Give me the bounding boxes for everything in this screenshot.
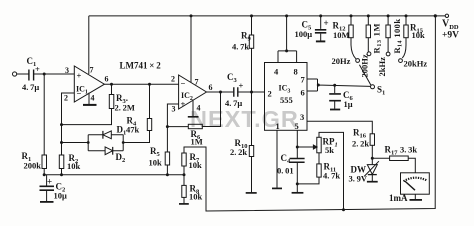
svg-text:10k: 10k bbox=[67, 161, 81, 171]
svg-text:2. 2k: 2. 2k bbox=[352, 139, 369, 149]
svg-text:2. 2k: 2. 2k bbox=[230, 147, 247, 157]
svg-text:6: 6 bbox=[301, 88, 305, 98]
svg-text:200Hz: 200Hz bbox=[360, 54, 370, 77]
svg-text:1: 1 bbox=[276, 121, 280, 131]
svg-text:2kHz: 2kHz bbox=[377, 57, 387, 77]
svg-text:+: + bbox=[324, 18, 329, 28]
svg-text:1M: 1M bbox=[191, 137, 203, 147]
svg-text:IC3: IC3 bbox=[279, 84, 291, 95]
svg-text:7: 7 bbox=[90, 66, 94, 75]
svg-text:10μ: 10μ bbox=[54, 191, 68, 201]
svg-text:D2: D2 bbox=[116, 152, 126, 164]
svg-text:47k: 47k bbox=[126, 125, 140, 135]
svg-text:+9V: +9V bbox=[442, 31, 459, 41]
svg-text:R14 100k: R14 100k bbox=[392, 19, 404, 54]
svg-text:5: 5 bbox=[295, 121, 299, 131]
svg-text:4. 7k: 4. 7k bbox=[232, 42, 249, 52]
svg-text:10k: 10k bbox=[412, 30, 426, 40]
svg-text:10k: 10k bbox=[189, 192, 203, 202]
svg-text:VDD: VDD bbox=[442, 19, 459, 32]
svg-text:LM741 × 2: LM741 × 2 bbox=[120, 61, 162, 71]
svg-text:555: 555 bbox=[280, 95, 293, 105]
svg-text:20Hz: 20Hz bbox=[332, 56, 351, 66]
svg-text:4: 4 bbox=[91, 94, 95, 103]
svg-text:3: 3 bbox=[300, 112, 304, 122]
svg-text:0. 01: 0. 01 bbox=[277, 166, 294, 176]
svg-text:2: 2 bbox=[64, 94, 68, 103]
svg-text:1mA: 1mA bbox=[389, 193, 408, 203]
svg-text:1μ: 1μ bbox=[344, 99, 353, 109]
svg-text:2. 2M: 2. 2M bbox=[115, 103, 135, 113]
svg-text:4. 7μ: 4. 7μ bbox=[225, 98, 242, 108]
svg-text:NEXT.GR: NEXT.GR bbox=[190, 106, 299, 132]
svg-text:C3: C3 bbox=[227, 72, 238, 84]
svg-text:4: 4 bbox=[274, 67, 279, 77]
svg-text:2: 2 bbox=[268, 89, 272, 99]
svg-text:6: 6 bbox=[105, 75, 109, 84]
svg-text:4: 4 bbox=[197, 104, 201, 113]
svg-text:8: 8 bbox=[294, 67, 298, 77]
svg-text:4. 7μ: 4. 7μ bbox=[22, 82, 39, 92]
svg-text:R13 1M: R13 1M bbox=[372, 23, 384, 54]
svg-text:−: − bbox=[181, 79, 186, 89]
svg-text:R17: R17 bbox=[385, 145, 399, 157]
svg-text:+: + bbox=[239, 81, 244, 91]
svg-text:3: 3 bbox=[65, 66, 69, 75]
svg-text:3. 9V: 3. 9V bbox=[349, 174, 368, 184]
svg-text:+: + bbox=[35, 64, 40, 74]
svg-text:6: 6 bbox=[209, 83, 213, 92]
svg-text:20kHz: 20kHz bbox=[404, 59, 428, 69]
svg-text:S1: S1 bbox=[377, 85, 385, 97]
svg-text:+: + bbox=[181, 99, 186, 109]
svg-text:7: 7 bbox=[301, 75, 306, 85]
svg-text:10k: 10k bbox=[149, 158, 163, 168]
svg-text:5k: 5k bbox=[325, 145, 334, 155]
svg-text:10M: 10M bbox=[333, 30, 350, 40]
svg-text:2: 2 bbox=[171, 75, 175, 84]
svg-text:4. 7k: 4. 7k bbox=[323, 171, 340, 181]
svg-text:R5: R5 bbox=[150, 146, 161, 158]
svg-text:100μ: 100μ bbox=[295, 29, 313, 39]
svg-text:10k: 10k bbox=[189, 160, 203, 170]
svg-text:3. 3k: 3. 3k bbox=[400, 145, 417, 155]
svg-text:3: 3 bbox=[172, 105, 176, 114]
svg-text:+: + bbox=[77, 71, 82, 81]
svg-text:200k: 200k bbox=[24, 161, 42, 171]
svg-text:+: + bbox=[47, 177, 52, 187]
svg-text:7: 7 bbox=[195, 78, 199, 87]
svg-text:C4: C4 bbox=[281, 153, 292, 165]
